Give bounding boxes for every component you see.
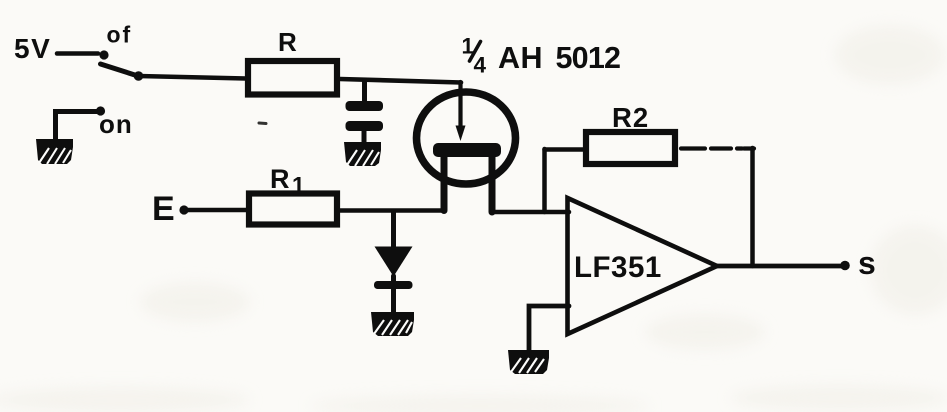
wire feedback right riser <box>750 148 755 266</box>
analog switch U1 gate lead <box>458 82 462 128</box>
wire R2 to feedback corner (dashed) <box>681 146 742 150</box>
label 1/4 AH5012 <box>462 34 621 78</box>
wire output <box>715 264 843 269</box>
svg-text:s: s <box>858 245 876 281</box>
resistor R2 <box>586 132 675 164</box>
diode D1 cathode lead <box>391 276 396 314</box>
node "of" contact <box>99 50 108 59</box>
wire non-inverting input to ground <box>529 306 569 352</box>
wire on-contact lead <box>56 112 99 143</box>
analog switch U1 source leg <box>441 155 448 211</box>
ground of op-amp input <box>508 350 549 374</box>
capacitor C1 plate 2 <box>346 121 384 131</box>
switch SW1 arm <box>101 64 139 76</box>
svg-text:E: E <box>152 190 175 228</box>
ground of switch on position <box>36 139 73 164</box>
wire R to gate node <box>340 79 461 83</box>
diode D1 triangle <box>375 247 413 277</box>
fraction slash of 1/4 <box>470 42 481 62</box>
label R1 <box>270 164 305 198</box>
op-amp U2 LF351 <box>568 198 718 334</box>
svg-text:AH: AH <box>498 41 543 75</box>
diode D1 anode lead <box>391 211 396 248</box>
terminal s dot <box>840 261 850 271</box>
svg-text:R2: R2 <box>612 102 649 133</box>
analog switch U1 drain leg <box>489 155 496 212</box>
capacitor C1 top lead <box>362 80 367 101</box>
capacitor C1 bottom lead <box>362 131 367 144</box>
capacitor C1 plate 1 <box>346 101 384 111</box>
analog switch U1 body circle <box>417 92 516 184</box>
stray scan mark <box>259 122 266 126</box>
resistor R1 <box>249 194 337 225</box>
svg-text:on: on <box>99 109 133 139</box>
svg-text:LF351: LF351 <box>574 251 662 284</box>
svg-text:R: R <box>278 27 297 57</box>
wire feedback top to R2 <box>545 147 586 152</box>
resistor R <box>248 61 337 95</box>
node switch pole junction <box>134 71 144 81</box>
ground under D1 <box>371 312 414 336</box>
ground under C1 <box>344 142 381 166</box>
svg-text:of: of <box>107 22 133 48</box>
svg-text:R: R <box>270 164 290 194</box>
wire 5V lead <box>57 51 98 56</box>
diode D1 cathode bar <box>374 281 413 289</box>
svg-text:5012: 5012 <box>556 41 621 75</box>
wire pole to R <box>139 76 247 79</box>
wire drain to op-amp input <box>492 210 569 215</box>
wire E to R1 <box>186 208 248 213</box>
svg-text:4: 4 <box>474 53 487 78</box>
node "on" contact <box>96 106 105 115</box>
wire feedback left riser <box>542 149 547 212</box>
analog switch U1 channel bar <box>433 143 501 157</box>
svg-text:5V: 5V <box>14 33 51 64</box>
analog switch U1 gate arrowhead <box>456 126 466 142</box>
wire R1 to source leg <box>337 208 444 213</box>
terminal E dot <box>179 205 188 214</box>
